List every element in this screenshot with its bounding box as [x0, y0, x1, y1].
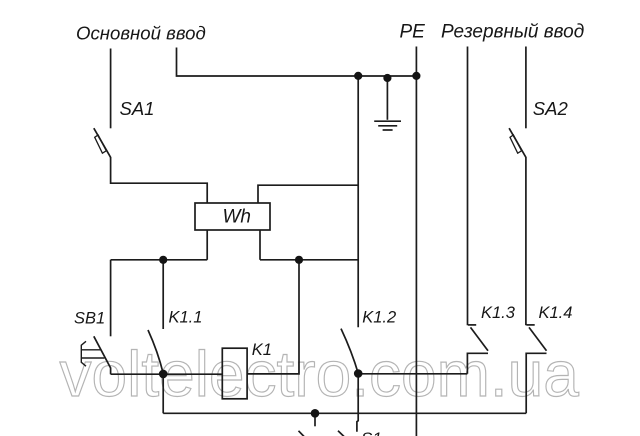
switch SA1 body rect — [95, 135, 107, 153]
node K1.1 top — [159, 256, 167, 264]
contact K1.4 bottom step — [526, 353, 546, 413]
contact K1.4 blade — [529, 327, 547, 350]
switch SA2 body rect — [510, 135, 522, 153]
contact K1.3 bottom step — [467, 353, 488, 374]
wire node row left (y260) — [111, 259, 208, 261]
wire SB1 top drop — [110, 260, 112, 337]
contact K1.3 fixed tick — [468, 324, 476, 326]
svg-text:K1.2: K1.2 — [362, 308, 396, 326]
svg-text:SA2: SA2 — [533, 98, 569, 119]
wire PE line — [415, 47, 417, 436]
contact K1.4 fixed tick — [526, 324, 534, 326]
contact fragment blade a — [299, 431, 305, 436]
wire main input drop 1 — [110, 49, 112, 129]
svg-text:K1.4: K1.4 — [539, 304, 573, 322]
wire reserve input drop 2 (to SA2) — [525, 47, 527, 129]
wire x358 down through row413 — [357, 377, 358, 432]
node K1.2 bottom — [354, 369, 363, 378]
node ground tap — [383, 74, 391, 82]
meter Wh box — [195, 203, 270, 230]
wire node row right (y260) — [260, 259, 358, 261]
wire row374 left (SB1 to K1 coil) — [111, 373, 223, 375]
wire row374 right (K1.2 to K1.3) — [358, 373, 467, 375]
wire bus vertical x358 — [357, 76, 359, 327]
wire node315 stub down — [314, 416, 316, 426]
svg-text:K1.1: K1.1 — [169, 308, 203, 326]
relay coil K1 box — [222, 348, 247, 399]
wire K1.1 top terminal — [162, 260, 164, 329]
wire Wh left bottom terminal — [206, 230, 208, 260]
node K1 coil riser — [295, 256, 303, 264]
ground stem — [386, 76, 388, 120]
svg-text:K1.3: K1.3 — [481, 304, 516, 322]
ground bars — [374, 120, 401, 122]
node dots — [159, 72, 421, 418]
svg-text:S1: S1 — [361, 429, 382, 436]
wire K1 coil right riser — [247, 260, 299, 374]
switch SA1 blade — [94, 128, 111, 157]
wire Wh right top terminal — [258, 185, 358, 203]
contact K1.3 blade — [471, 327, 489, 350]
wire SA2 to K1.4 — [525, 157, 527, 325]
wire row413 bottom — [163, 412, 526, 414]
svg-text:SB1: SB1 — [74, 309, 105, 327]
switch SA2 blade — [509, 128, 526, 157]
svg-text:Резервный ввод: Резервный ввод — [441, 21, 584, 42]
node K1.1 bottom — [159, 370, 168, 379]
svg-text:SA1: SA1 — [120, 98, 155, 119]
node row413 — [311, 409, 320, 418]
wire Wh right bottom terminal — [259, 230, 261, 260]
contact fragment blade b — [338, 431, 344, 436]
wire main input drop 2 — [177, 48, 417, 77]
wire K1.1 node down drop — [162, 374, 164, 413]
pushbutton SB1 actuator — [81, 341, 86, 366]
node PE tap — [412, 72, 420, 80]
node A (bus/row76) — [354, 72, 362, 80]
wire SA1 to Wh row — [111, 157, 208, 203]
contact K1.2 blade — [341, 329, 358, 374]
svg-text:Wh: Wh — [223, 207, 252, 228]
svg-text:K1: K1 — [252, 341, 272, 359]
svg-text:PE: PE — [400, 21, 426, 42]
pushbutton SB1 blade — [94, 336, 111, 374]
wire reserve input drop 1 — [467, 47, 469, 326]
svg-text:Основной ввод: Основной ввод — [76, 22, 206, 43]
contact K1.1 blade — [148, 330, 163, 374]
